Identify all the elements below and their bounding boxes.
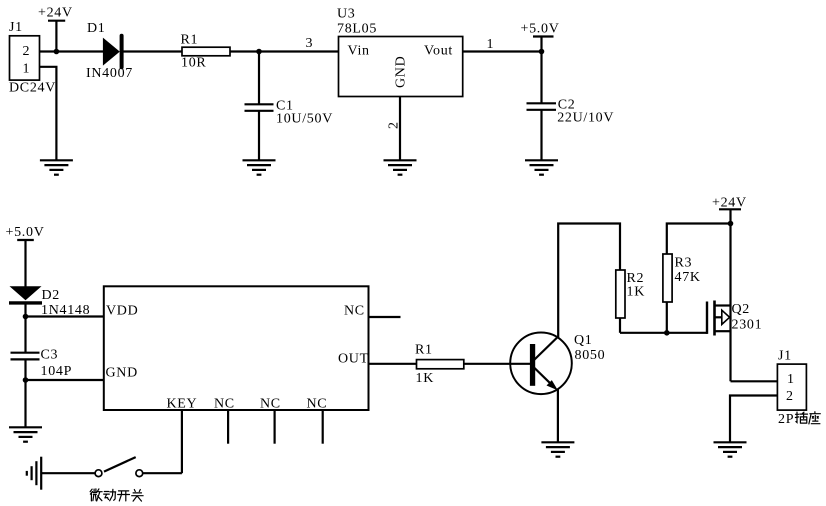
node junction +24V xyxy=(54,49,60,55)
resistor R1 1K (base resistor) xyxy=(415,343,464,387)
ground (Q1 emitter) xyxy=(541,442,574,456)
微 xyxy=(90,489,92,501)
svg-text:J1: J1 xyxy=(9,20,23,35)
ground (C3) xyxy=(9,427,42,441)
svg-text:R1: R1 xyxy=(415,343,433,358)
svg-text:GND: GND xyxy=(106,365,138,380)
svg-text:22U/10V: 22U/10V xyxy=(557,110,614,125)
node junction VDD tap xyxy=(23,314,29,320)
svg-text:DC24V: DC24V xyxy=(9,81,56,96)
wire NC stub (right top) xyxy=(369,316,401,318)
wire NC bottom pin 2 xyxy=(274,410,276,444)
svg-text:+5.0V: +5.0V xyxy=(6,225,45,240)
svg-text:1: 1 xyxy=(487,37,495,52)
wire GND to IC xyxy=(26,379,104,381)
svg-text:1: 1 xyxy=(23,62,31,77)
svg-text:D2: D2 xyxy=(42,288,61,303)
wire Q2 drain to J1 pin1 xyxy=(731,380,778,382)
node junction +24V / Q2 source xyxy=(728,221,734,227)
node junction +5V xyxy=(539,49,545,55)
svg-text:Q2: Q2 xyxy=(732,302,751,317)
svg-text:OUT: OUT xyxy=(338,351,369,366)
resistor R1 10R xyxy=(181,33,231,71)
wire KEY pin down to switch xyxy=(181,410,183,473)
svg-text:GND: GND xyxy=(394,56,409,88)
svg-text:8050: 8050 xyxy=(575,348,606,363)
wire C1 lower lead xyxy=(258,111,260,160)
capacitor C2 22U/10V xyxy=(527,98,615,126)
regulator U3 78L05 xyxy=(337,7,463,97)
svg-text:NC: NC xyxy=(307,396,328,411)
svg-text:Vout: Vout xyxy=(424,44,453,59)
wire C2 lower lead xyxy=(540,110,542,160)
wire NC bottom pin 3 xyxy=(322,410,324,444)
svg-text:1K: 1K xyxy=(416,371,435,386)
svg-text:Vin: Vin xyxy=(348,44,370,59)
wire Q2 source/drain vertical xyxy=(729,224,731,382)
svg-text:47K: 47K xyxy=(675,270,701,285)
svg-text:NC: NC xyxy=(214,396,235,411)
svg-text:KEY: KEY xyxy=(167,396,198,411)
node junction R3 bottom xyxy=(664,330,670,336)
动 xyxy=(104,492,110,500)
wire switch to KEY riser xyxy=(143,472,182,474)
IC U2 control chip box xyxy=(104,286,369,411)
diode D1 1N4007 xyxy=(86,21,133,81)
ground (C2) xyxy=(525,160,558,174)
wire R1 to U3 Vin xyxy=(230,50,339,52)
ground (J1 pin1) xyxy=(40,160,73,174)
svg-text:IN4007: IN4007 xyxy=(86,66,133,81)
wire C2 upper lead xyxy=(540,52,542,104)
座 xyxy=(809,412,820,424)
switch S1 micro switch xyxy=(95,457,143,477)
svg-text:VDD: VDD xyxy=(106,304,138,319)
wire ground to switch contact xyxy=(41,472,95,474)
wire OUT to R1 (1K) xyxy=(369,363,417,365)
svg-text:U3: U3 xyxy=(337,7,356,22)
label 2P插座 (2P socket, CJK strokes) xyxy=(778,412,820,427)
net +24V power symbol (bottom section) xyxy=(712,196,747,224)
svg-text:R1: R1 xyxy=(181,33,199,48)
wire U3 Vout to +5V node, pin number 1 xyxy=(463,37,542,52)
svg-text:104P: 104P xyxy=(41,364,73,379)
svg-text:2: 2 xyxy=(23,44,31,59)
svg-text:78L05: 78L05 xyxy=(337,22,377,37)
svg-text:+5.0V: +5.0V xyxy=(521,22,560,37)
resistor R3 47K xyxy=(663,254,701,302)
开 xyxy=(118,491,130,501)
wire NC bottom pin 1 xyxy=(227,410,229,444)
svg-text:C3: C3 xyxy=(41,348,59,363)
connector J1 (DC24V input) xyxy=(9,20,56,96)
capacitor C3 104P xyxy=(11,348,73,380)
svg-text:2: 2 xyxy=(387,121,402,129)
label 微动开关 (micro switch, CJK strokes) xyxy=(90,489,143,501)
wire R3 bottom lead xyxy=(666,302,668,333)
wire R3 top to +24V node xyxy=(667,224,731,255)
node junction GND tap xyxy=(23,377,29,383)
关 xyxy=(132,490,143,502)
svg-text:NC: NC xyxy=(260,396,281,411)
svg-text:R3: R3 xyxy=(675,255,693,270)
svg-text:D1: D1 xyxy=(87,21,106,36)
wire Q1 emitter to ground xyxy=(557,389,559,442)
wire D2 cathode down to C3 xyxy=(24,303,26,353)
ground (U3 pin2) xyxy=(384,160,417,174)
net +24V power symbol (top) xyxy=(38,6,73,52)
connector J1 2P socket xyxy=(777,349,806,410)
svg-text:2: 2 xyxy=(786,389,794,404)
node junction C1 tap xyxy=(256,49,262,55)
wire VDD to IC xyxy=(26,315,104,317)
svg-text:3: 3 xyxy=(306,36,314,51)
wire C1 upper lead xyxy=(258,52,260,105)
svg-text:+24V: +24V xyxy=(712,196,747,211)
svg-text:2P: 2P xyxy=(778,412,794,427)
svg-text:Q1: Q1 xyxy=(574,333,593,348)
svg-text:10R: 10R xyxy=(181,56,206,71)
插 xyxy=(795,412,798,422)
svg-text:J1: J1 xyxy=(778,349,792,364)
svg-text:NC: NC xyxy=(344,304,365,319)
wire gate rail to Q2 gate xyxy=(620,332,707,334)
wire J1 pin2 to ground xyxy=(730,396,777,443)
wire U3 pin2 (GND) xyxy=(387,97,402,161)
svg-text:1: 1 xyxy=(787,372,795,387)
wire J1 pin1 to ground xyxy=(40,67,57,160)
resistor R2 1K xyxy=(616,270,645,318)
svg-text:2301: 2301 xyxy=(732,317,763,332)
diode D2 1N4148 xyxy=(9,286,90,318)
svg-text:+24V: +24V xyxy=(38,6,73,21)
wire R2 bottom to gate rail xyxy=(619,318,621,333)
svg-text:1K: 1K xyxy=(627,284,646,299)
capacitor C1 10U/50V xyxy=(245,98,334,126)
ground (switch, sideways) xyxy=(27,457,41,490)
wire D1 cathode to R1 xyxy=(122,50,182,52)
ground (C1) xyxy=(243,160,276,174)
net +5.0V power symbol (top) xyxy=(521,22,560,52)
net +5.0V power symbol (bottom section) xyxy=(6,225,45,287)
transistor Q1 8050 xyxy=(510,333,605,395)
ground (J1 pin2) xyxy=(714,442,747,456)
wire Q1 collector up and over to R2 xyxy=(558,224,620,338)
wire C3 lower lead to ground xyxy=(24,359,26,427)
svg-text:10U/50V: 10U/50V xyxy=(276,112,333,127)
wire R1 to Q1 base xyxy=(464,363,531,365)
mosfet Q2 2301 xyxy=(707,301,762,336)
wire J1 pin2 to D1 anode xyxy=(40,50,104,52)
